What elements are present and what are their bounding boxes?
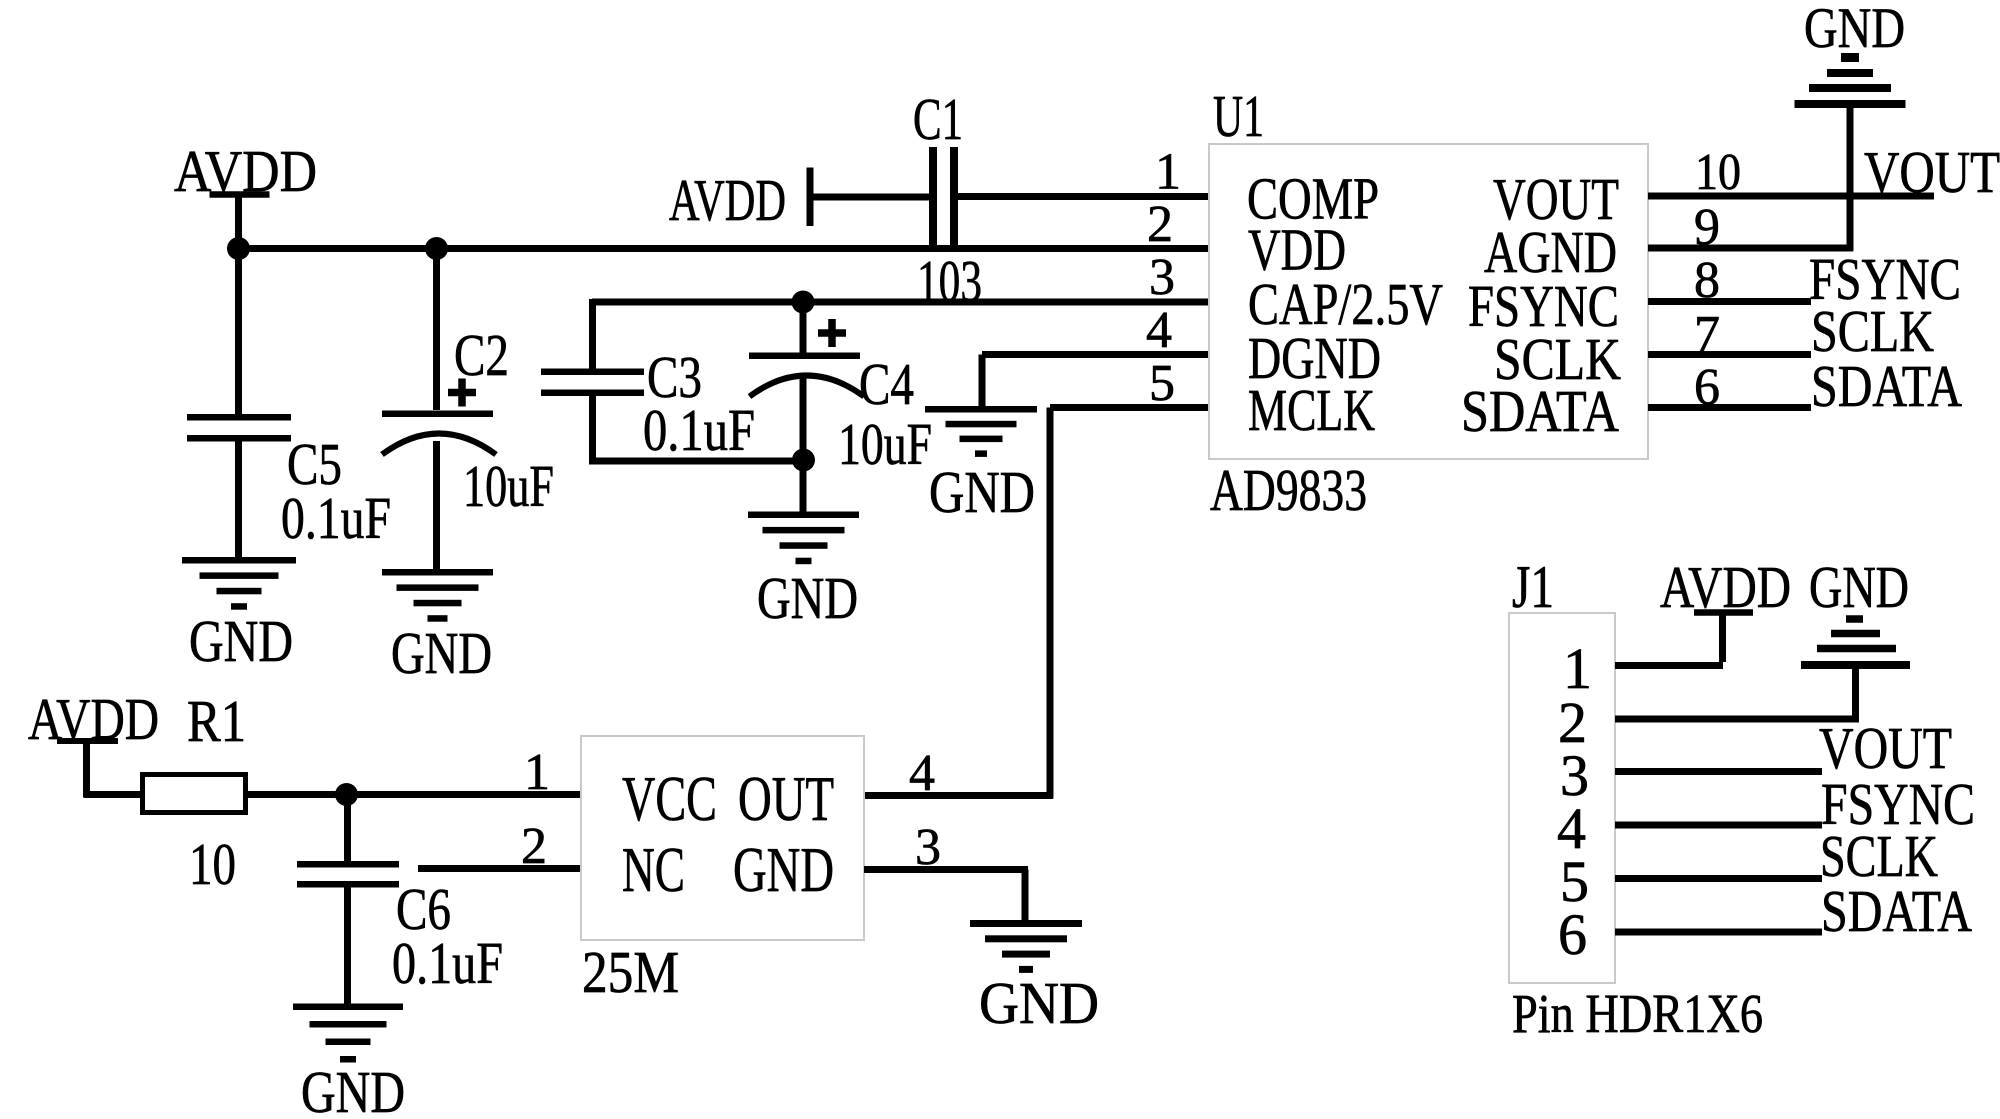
ground at oscillator [970, 920, 1082, 973]
wire U1 pin 6 (SDATA) [1648, 404, 1811, 411]
svg-text:8: 8 [1694, 252, 1720, 309]
C2 value 10uF [463, 453, 554, 519]
U1 pin VOUT label [1493, 166, 1619, 232]
GND label at C6 [301, 1059, 405, 1119]
U1 pin 10 number [1695, 144, 1741, 201]
wire C4 bottom lead [800, 378, 807, 516]
svg-text:GND: GND [189, 608, 293, 674]
wire J1 pin 3 (VOUT) [1615, 768, 1822, 775]
svg-text:6: 6 [1694, 359, 1720, 416]
node C3/C4 ground junction [792, 449, 815, 472]
svg-text:C4: C4 [859, 351, 914, 417]
svg-text:AVDD: AVDD [669, 167, 786, 233]
wire C4 top lead [800, 302, 807, 355]
svg-text:C1: C1 [913, 86, 963, 152]
svg-text:0.1uF: 0.1uF [392, 930, 503, 996]
svg-text:GND: GND [979, 970, 1099, 1036]
U1 pin VDD label [1248, 217, 1346, 283]
U1 pin 5 number [1149, 355, 1175, 412]
svg-text:4: 4 [1146, 302, 1172, 359]
C1 value 103 [917, 248, 982, 314]
svg-text:SDATA: SDATA [1461, 378, 1619, 444]
ground at J1 (inverted) [1801, 554, 1910, 669]
ground at C2 [382, 569, 493, 622]
J1 pin 2 number [1558, 690, 1587, 755]
svg-text:3: 3 [1149, 249, 1175, 306]
svg-text:2: 2 [1147, 196, 1173, 253]
wire C6 top lead [344, 795, 351, 862]
svg-text:Pin HDR1X6: Pin HDR1X6 [1512, 983, 1763, 1044]
capacitor C6 [297, 861, 399, 888]
R1 refdes [187, 688, 246, 754]
U1 refdes [1213, 83, 1264, 149]
R1 value 10 [189, 831, 236, 897]
svg-text:GND: GND [1809, 554, 1909, 620]
svg-text:2: 2 [521, 818, 547, 875]
capacitor C1 [929, 147, 958, 246]
wire J1 pin 1 to AVDD [1615, 612, 1726, 669]
power AVDD at C1 [669, 167, 814, 233]
C4 label [859, 351, 914, 417]
capacitor C4 polarized [749, 319, 864, 397]
J1 pin 1 number [1563, 636, 1592, 701]
U1 part AD9833 [1210, 457, 1367, 523]
C2 label [454, 322, 509, 388]
GND label at oscillator [979, 970, 1099, 1036]
svg-text:9: 9 [1694, 199, 1720, 256]
svg-text:J1: J1 [1512, 554, 1554, 620]
U1 pin MCLK label [1248, 377, 1375, 443]
wire U1 pin 5 (MCLK) to oscillator OUT [864, 404, 1209, 799]
node AVDD junction at C2 [425, 237, 448, 260]
ground at DGND [925, 406, 1037, 457]
wire J1 pin 4 (FSYNC) [1615, 822, 1822, 829]
C5 label [287, 431, 342, 497]
capacitor C5 [187, 414, 291, 442]
oscillator pin 2 number [521, 818, 547, 875]
svg-text:AD9833: AD9833 [1210, 457, 1367, 523]
GND label at C5 [189, 608, 293, 674]
U1 pin 6 number [1694, 359, 1720, 416]
oscillator value 25M [582, 939, 679, 1005]
net FSYNC at U1 [1809, 246, 1961, 312]
oscillator NC label [622, 834, 685, 905]
svg-text:10uF: 10uF [838, 411, 932, 477]
oscillator X1 body [581, 736, 864, 940]
C6 value 0.1uF [392, 930, 503, 996]
wire C2 top lead [433, 249, 440, 411]
ground at C6 [293, 1004, 403, 1063]
node pin3 rail junction [792, 291, 815, 314]
svg-text:GND: GND [1804, 0, 1905, 60]
svg-text:OUT: OUT [738, 763, 834, 834]
J1 pin 4 number [1557, 796, 1586, 861]
svg-text:10: 10 [1695, 144, 1741, 201]
U1 pin DGND label [1248, 325, 1381, 391]
oscillator VCC label [622, 763, 717, 834]
svg-text:SDATA: SDATA [1811, 353, 1962, 419]
U1 pin 2 number [1147, 196, 1173, 253]
svg-text:0.1uF: 0.1uF [643, 397, 755, 463]
U1 pin SCLK label [1494, 326, 1621, 392]
C6 label [396, 876, 451, 942]
wire U1 pin 4 (DGND) [979, 351, 1210, 409]
capacitor C3 [541, 369, 644, 397]
wire oscillator NC stub [418, 865, 581, 872]
C4 value 10uF [838, 411, 932, 477]
GND label at DGND [929, 459, 1035, 525]
U1 pin 3 number [1149, 249, 1175, 306]
svg-text:MCLK: MCLK [1248, 377, 1375, 443]
U1 pin CAP/2.5V label [1248, 271, 1443, 337]
wire C6 bottom lead [344, 886, 351, 1006]
wire C3 bottom lead [589, 394, 596, 465]
wire U1 pin 9 (AGND) [1648, 245, 1853, 252]
wire C5 top lead [235, 249, 242, 415]
ground at C5 [182, 557, 296, 610]
power AVDD (top-left) [174, 138, 317, 251]
C1 label [913, 86, 963, 152]
U1 pin AGND label [1484, 219, 1617, 285]
wire U1 pin 10 (VOUT) [1648, 193, 1934, 200]
capacitor C2 polarized [382, 379, 496, 455]
svg-text:GND: GND [391, 620, 492, 686]
U1 pin SDATA label [1461, 378, 1619, 444]
svg-text:6: 6 [1558, 902, 1587, 967]
GND label at C2 [391, 620, 492, 686]
wire C3-C4 bottom rail [592, 458, 806, 465]
net SDATA at U1 [1811, 353, 1962, 419]
net VOUT at U1 [1864, 139, 2000, 205]
net VOUT at J1 [1819, 715, 1952, 781]
wire oscillator GND pin [864, 866, 1029, 922]
J1 pin 6 number [1558, 902, 1587, 967]
ground at C3/C4 [748, 512, 859, 565]
J1 pin 5 number [1560, 849, 1589, 914]
GND label at C3/C4 [757, 565, 858, 631]
U1 pin 1 number [1155, 144, 1181, 201]
ground at AGND (inverted) [1795, 0, 1906, 251]
U1 pin COMP label [1247, 166, 1379, 232]
svg-text:VOUT: VOUT [1864, 139, 2000, 205]
oscillator GND label [733, 834, 834, 905]
wire U1 pin 7 (SCLK) [1648, 351, 1811, 358]
svg-text:U1: U1 [1213, 83, 1264, 149]
wire U1 pin 3 rail (CAP/2.5V) [589, 299, 1209, 376]
svg-text:10uF: 10uF [463, 453, 554, 519]
wire AVDD tick to C1 [810, 194, 929, 201]
svg-text:SDATA: SDATA [1821, 878, 1972, 944]
U1 pin FSYNC label [1468, 273, 1619, 339]
connector J1 body [1509, 613, 1615, 983]
wire C1 to U1 pin 1 (COMP) [954, 193, 1209, 200]
svg-text:4: 4 [909, 745, 935, 802]
net SCLK at J1 [1820, 823, 1938, 889]
node R1/C6 junction [335, 783, 358, 806]
net FSYNC at J1 [1821, 771, 1975, 837]
J1 pin 3 number [1560, 743, 1589, 808]
oscillator pin 3 number [915, 819, 941, 876]
svg-text:7: 7 [1694, 306, 1720, 363]
svg-text:R1: R1 [187, 688, 246, 754]
wire R1 to oscillator VCC [248, 791, 581, 798]
net SCLK at U1 [1811, 298, 1934, 364]
svg-text:1: 1 [524, 744, 550, 801]
C3 label [647, 344, 702, 410]
svg-text:25M: 25M [582, 939, 679, 1005]
svg-text:GND: GND [757, 565, 858, 631]
J1 refdes [1512, 554, 1554, 620]
U1 pin 9 number [1694, 199, 1720, 256]
op-amp U1 body (AD9833) [1209, 144, 1648, 459]
svg-text:VCC: VCC [622, 763, 717, 834]
C5 value 0.1uF [281, 485, 391, 551]
svg-text:GND: GND [733, 834, 834, 905]
resistor R1 [143, 775, 246, 813]
wire J1 pin 5 (SCLK) [1615, 875, 1822, 882]
svg-text:1: 1 [1155, 144, 1181, 201]
svg-text:C2: C2 [454, 322, 509, 388]
svg-text:GND: GND [301, 1059, 405, 1119]
U1 pin 4 number [1146, 302, 1172, 359]
oscillator pin 1 number [524, 744, 550, 801]
net SDATA at J1 [1821, 878, 1972, 944]
node AVDD junction at C5 [227, 237, 250, 260]
svg-text:5: 5 [1149, 355, 1175, 412]
wire U1 pin 8 (FSYNC) [1648, 298, 1811, 305]
wire J1 pin 6 (SDATA) [1615, 929, 1822, 936]
oscillator OUT label [738, 763, 834, 834]
wire J1 pin 2 to GND [1615, 665, 1859, 723]
svg-text:0.1uF: 0.1uF [281, 485, 391, 551]
svg-text:NC: NC [622, 834, 685, 905]
wire C5 bottom lead [235, 441, 242, 560]
svg-text:GND: GND [929, 459, 1035, 525]
U1 pin 8 number [1694, 252, 1720, 309]
J1 part Pin HDR1X6 [1512, 983, 1763, 1044]
C3 value 0.1uF [643, 397, 755, 463]
wire C2 bottom lead [433, 441, 440, 572]
oscillator pin 4 number [909, 745, 935, 802]
power AVDD at J1 [1660, 554, 1791, 620]
svg-text:10: 10 [189, 831, 236, 897]
wire AVDD rail to U1 pin 2 (VDD) [238, 245, 1209, 252]
U1 pin 7 number [1694, 306, 1720, 363]
power AVDD (bottom-left) [28, 686, 159, 798]
